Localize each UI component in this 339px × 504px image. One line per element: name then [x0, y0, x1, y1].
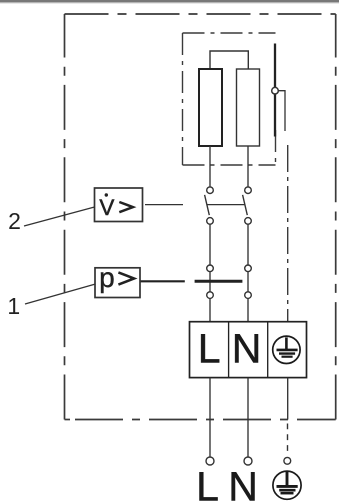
supply terminal node N	[244, 457, 252, 465]
wire: element R2 down to flow switch	[247, 146, 249, 187]
svg-text:1: 1	[7, 293, 20, 319]
wire: external supply PE (dashed)	[287, 424, 289, 454]
supply terminal node PE	[284, 457, 291, 464]
flow switch blade (left pole)	[205, 195, 210, 215]
safety thermal cutout sensor lead	[272, 44, 285, 137]
leader line for label 1	[25, 284, 96, 304]
terminal PE earth symbol	[273, 336, 300, 363]
wire: terminal L to enclosure edge	[209, 378, 211, 420]
protective earth conductor (dash-dot) to terminal PE	[287, 145, 289, 322]
wire: terminal PE to enclosure edge	[287, 378, 289, 420]
flow sensor box V>	[95, 188, 143, 222]
pressure switch contact terminals (right pole)	[245, 265, 252, 298]
pressure sensor box p>	[95, 262, 140, 298]
svg-text:L: L	[198, 326, 221, 372]
svg-text:N: N	[228, 463, 258, 504]
wire: terminal N to enclosure edge	[247, 378, 249, 420]
heating element R2 (right)	[237, 69, 260, 146]
wire: jumper joining tops of heating elements	[210, 51, 248, 69]
leader line for label 2	[24, 207, 95, 226]
pressure switch pole coupling bar	[195, 280, 243, 283]
flow switch contact terminals (right pole)	[245, 187, 252, 224]
wire: external supply L	[209, 420, 211, 458]
wire: element R1 down to flow switch	[209, 146, 211, 187]
wire: external supply N	[247, 420, 249, 458]
wire: between pressure contacts (left pole, closed)	[209, 272, 211, 292]
flow switch actuating link from sensor box	[145, 204, 183, 206]
svg-text:L: L	[196, 463, 219, 504]
flow switch blade (right pole)	[243, 195, 248, 215]
flow switch contact terminals (left pole)	[207, 187, 214, 224]
wire: pressure switch to terminal L	[209, 299, 211, 322]
flow switch pole coupling bar	[207, 204, 246, 206]
svg-text:2: 2	[8, 208, 21, 234]
svg-text:N: N	[232, 326, 262, 372]
heating element R1 (left)	[199, 69, 222, 146]
appliance enclosure boundary (dash-dot)	[65, 14, 336, 420]
svg-text:V: V	[99, 195, 114, 220]
supply earth (PE) symbol	[273, 471, 301, 499]
heater vessel boundary (dash-dot)	[183, 33, 276, 165]
svg-text:p: p	[99, 262, 115, 293]
wire: pressure switch to terminal N	[247, 299, 249, 322]
wire: flow switch to pressure switch (left)	[209, 224, 211, 264]
wire: flow switch to pressure switch (right)	[247, 224, 249, 264]
terminal block X1	[190, 322, 307, 378]
supply terminal node L	[206, 457, 214, 465]
pressure switch contact terminals (left pole)	[207, 265, 214, 298]
pressure switch actuating link from sensor box	[140, 280, 185, 282]
wire: between pressure contacts (right pole, closed)	[247, 272, 249, 292]
